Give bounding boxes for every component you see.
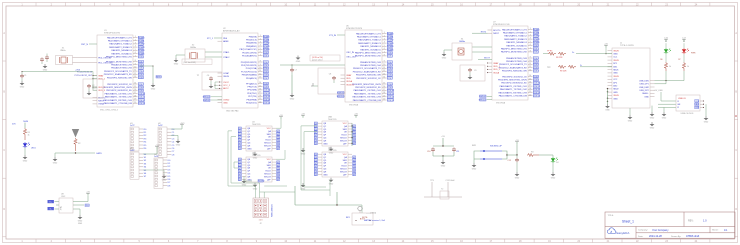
svg-text:PF0(ADC0): PF0(ADC0) bbox=[246, 77, 257, 80]
svg-text:C12: C12 bbox=[508, 160, 511, 162]
svg-text:D: D bbox=[3, 208, 5, 211]
svg-text:D+: D+ bbox=[50, 202, 52, 204]
svg-text:VCC: VCC bbox=[343, 154, 348, 156]
resistor R2 bbox=[74, 138, 77, 151]
svg-text:BOOT0: BOOT0 bbox=[493, 30, 501, 32]
svg-text:PB0/ADC8/TIM3_CH3: PB0/ADC8/TIM3_CH3 bbox=[360, 61, 382, 64]
svg-text:C10: C10 bbox=[427, 151, 430, 153]
op-amp U4 body bbox=[246, 126, 272, 151]
svg-text:1.0: 1.0 bbox=[703, 219, 707, 223]
svg-text:GND: GND bbox=[613, 54, 618, 56]
svg-text:USB_DP1: USB_DP1 bbox=[639, 84, 649, 86]
ground flag above rail bbox=[296, 56, 301, 60]
svg-text:7: 7 bbox=[384, 51, 385, 53]
wire X2 ground bbox=[176, 55, 185, 58]
capacitor C2 100nF near U1 bbox=[83, 79, 103, 98]
ground below C12 bbox=[515, 172, 520, 176]
svg-text:GND: GND bbox=[551, 178, 556, 180]
svg-text:PB13/SPI2_SCK/I2S2_CK: PB13/SPI2_SCK/I2S2_CK bbox=[502, 76, 527, 78]
LED D4 green bbox=[552, 155, 554, 157]
svg-text:PB1/ADC9/TIM3_CH4: PB1/ADC9/TIM3_CH4 bbox=[111, 67, 133, 70]
svg-text:16MHz: 16MHz bbox=[190, 47, 196, 49]
svg-text:PE2(HWB): PE2(HWB) bbox=[247, 99, 257, 101]
svg-text:PD3(TXD1/INT3): PD3(TXD1/INT3) bbox=[241, 65, 257, 67]
svg-text:15: 15 bbox=[383, 83, 385, 85]
svg-text:COL13: COL13 bbox=[138, 103, 145, 105]
svg-text:GND: GND bbox=[151, 89, 156, 91]
svg-text:PB12/SPI2_NSS/I2S2_WS: PB12/SPI2_NSS/I2S2_WS bbox=[502, 71, 528, 73]
svg-text:7: 7 bbox=[135, 55, 136, 57]
svg-text:VDD_2: VDD_2 bbox=[98, 87, 106, 89]
wire U4 VCC to +5V flag bbox=[276, 119, 281, 128]
wire NRST to U1 bbox=[89, 43, 97, 45]
svg-text:3: 3 bbox=[530, 35, 531, 37]
svg-text:ROW4: ROW4 bbox=[533, 42, 540, 44]
ground X4 bbox=[442, 52, 447, 56]
svg-text:SER: SER bbox=[343, 129, 348, 131]
resistor R8 series bbox=[548, 52, 556, 55]
svg-text:PB15/SPI2_MOSI/I2S2_SD: PB15/SPI2_MOSI/I2S2_SD bbox=[106, 90, 132, 92]
svg-text:8: 8 bbox=[530, 51, 531, 53]
svg-text:PC6(OC3A): PC6(OC3A) bbox=[246, 67, 257, 70]
boxed net label above J2 bbox=[258, 180, 263, 183]
junction dots J1 ground pins bbox=[607, 88, 608, 89]
svg-text:PA5/SPI1_SCK/ADC5: PA5/SPI1_SCK/ADC5 bbox=[360, 48, 381, 51]
svg-text:PA9/USART1_TX/TIM1_CH2: PA9/USART1_TX/TIM1_CH2 bbox=[354, 92, 382, 95]
svg-text:COL14: COL14 bbox=[263, 103, 270, 105]
svg-text:VSSA: VSSA bbox=[98, 103, 104, 106]
wires into U8 left bbox=[55, 201, 60, 203]
svg-text:XTAL: XTAL bbox=[60, 206, 63, 210]
capacitor C3 crystal load bbox=[45, 56, 49, 60]
svg-text:COL10: COL10 bbox=[387, 90, 394, 92]
svg-text:PB11/I2C2_SDA/USART3_RX: PB11/I2C2_SDA/USART3_RX bbox=[104, 73, 133, 76]
svg-text:PD1(SDA/INT1): PD1(SDA/INT1) bbox=[242, 55, 257, 58]
svg-text:7: 7 bbox=[530, 47, 531, 49]
ground below U6B bbox=[329, 147, 334, 151]
op-amp U2 body bbox=[222, 33, 258, 108]
op-amp U8 body bbox=[59, 198, 73, 213]
svg-text:NRST: NRST bbox=[98, 101, 104, 103]
svg-text:PB7(OC0A/OC1C): PB7(OC0A/OC1C) bbox=[239, 48, 257, 51]
ground below U6C bbox=[329, 178, 334, 182]
svg-text:COL13: COL13 bbox=[263, 99, 270, 101]
svg-text:COL0: COL0 bbox=[138, 57, 144, 59]
svg-text:PA9/USART1_TX/TIM1_CH2: PA9/USART1_TX/TIM1_CH2 bbox=[105, 96, 133, 99]
svg-text:QH*: QH* bbox=[267, 179, 271, 181]
svg-text:COL12: COL12 bbox=[263, 96, 270, 98]
svg-text:PB15/SPI2_MOSI/I2S2_SD: PB15/SPI2_MOSI/I2S2_SD bbox=[355, 87, 381, 89]
svg-text:PB14/SPI2_MISO/TIM1_CH2N: PB14/SPI2_MISO/TIM1_CH2N bbox=[498, 80, 527, 82]
svg-text:RCLK: RCLK bbox=[265, 171, 271, 173]
svg-text:COL10: COL10 bbox=[138, 93, 145, 95]
svg-text:USBLC6-2SC6: USBLC6-2SC6 bbox=[681, 113, 694, 115]
annotation box above U2 cluster bbox=[182, 59, 212, 64]
svg-text:USBLC6: USBLC6 bbox=[678, 98, 687, 100]
svg-text:4: 4 bbox=[384, 42, 385, 44]
resistor R10 under D1 bbox=[665, 54, 667, 62]
connector J1 body bbox=[612, 48, 650, 108]
svg-text:GND: GND bbox=[174, 64, 179, 66]
svg-text:PA8/USART1_CK/TIM1_CH1: PA8/USART1_CK/TIM1_CH1 bbox=[105, 92, 133, 95]
ground below C6 bbox=[209, 84, 214, 88]
capacitor C6 cluster box near U2 bbox=[202, 72, 222, 90]
svg-text:9: 9 bbox=[530, 57, 531, 59]
svg-text:C8: C8 bbox=[329, 74, 331, 76]
svg-text:14: 14 bbox=[134, 83, 136, 85]
svg-text:ROW5: ROW5 bbox=[138, 53, 145, 55]
svg-text:D2: D2 bbox=[665, 41, 667, 43]
svg-text:PB13/SPI2_SCK/I2S2_CK: PB13/SPI2_SCK/I2S2_CK bbox=[107, 84, 132, 86]
svg-text:PA3/USART2_RX/ADC3: PA3/USART2_RX/ADC3 bbox=[109, 46, 133, 49]
svg-text:VCC_1: VCC_1 bbox=[223, 85, 231, 87]
wire NRST net stub bbox=[140, 66, 153, 83]
svg-text:COL11: COL11 bbox=[387, 93, 394, 95]
svg-text:SER: SER bbox=[267, 134, 272, 136]
svg-text:SWCLK: SWCLK bbox=[203, 97, 211, 99]
svg-text:9: 9 bbox=[260, 64, 261, 66]
svg-text:VDD_1: VDD_1 bbox=[493, 66, 501, 68]
svg-text:BOOT0: BOOT0 bbox=[98, 97, 106, 99]
svg-text:PA0-WKUP/USART2_CTS: PA0-WKUP/USART2_CTS bbox=[107, 36, 132, 39]
svg-text:CLK: CLK bbox=[85, 205, 90, 207]
svg-text:1 2 3: 1 2 3 bbox=[259, 220, 263, 222]
svg-text:AVCC: AVCC bbox=[223, 87, 229, 90]
svg-text:COL5: COL5 bbox=[263, 71, 269, 73]
svg-text:COL8: COL8 bbox=[533, 76, 539, 78]
svg-text:7: 7 bbox=[260, 54, 261, 56]
svg-text:10: 10 bbox=[529, 60, 531, 62]
svg-text:—— [GND]: —— [GND] bbox=[366, 213, 377, 215]
svg-text:XTAL1: XTAL1 bbox=[223, 51, 230, 54]
svg-text:2: 2 bbox=[135, 39, 136, 41]
svg-text:ROW3: ROW3 bbox=[387, 43, 394, 45]
svg-text:Y2: Y2 bbox=[441, 189, 443, 191]
svg-text:ROW1: ROW1 bbox=[533, 33, 540, 35]
svg-text:PA2/USART2_TX/ADC2: PA2/USART2_TX/ADC2 bbox=[109, 43, 132, 46]
svg-text:PA3/USART2_RX/ADC3: PA3/USART2_RX/ADC3 bbox=[358, 42, 382, 45]
crystal X4 body bbox=[452, 43, 472, 60]
svg-text:ROW2: ROW2 bbox=[138, 44, 145, 46]
svg-text:VDD_2: VDD_2 bbox=[493, 69, 501, 71]
svg-text:TITLE:: TITLE: bbox=[608, 215, 615, 217]
svg-text:R8 22R: R8 22R bbox=[556, 57, 563, 59]
svg-text:ROW4: ROW4 bbox=[138, 50, 145, 52]
net flag USB_DP filled bbox=[48, 200, 54, 203]
svg-text:COL7: COL7 bbox=[533, 71, 539, 73]
svg-text:11: 11 bbox=[259, 70, 261, 72]
svg-text:ROW0: ROW0 bbox=[263, 36, 270, 38]
svg-text:GND GND PAD: GND GND PAD bbox=[226, 110, 239, 113]
wire box rails around U6C group bbox=[301, 126, 330, 196]
ground left of caps wire bbox=[54, 153, 56, 157]
svg-text:VDD: VDD bbox=[346, 78, 351, 80]
svg-text:10: 10 bbox=[383, 64, 385, 66]
svg-text:VSS_1 VSS_2 VSS_3: VSS_1 VSS_2 VSS_3 bbox=[100, 110, 118, 112]
capacitor C8 cluster near U6 bbox=[318, 68, 345, 94]
svg-text:ROW3: ROW3 bbox=[263, 46, 270, 48]
wire 3V3 rail bbox=[22, 71, 93, 73]
svg-text:13: 13 bbox=[134, 76, 136, 78]
svg-text:PD5(XCK1): PD5(XCK1) bbox=[246, 103, 257, 105]
svg-text:TP2: TP2 bbox=[547, 67, 550, 69]
svg-text:SRCLR: SRCLR bbox=[340, 171, 347, 173]
svg-text:VBUS: VBUS bbox=[613, 60, 619, 62]
svg-text:8MHz: 8MHz bbox=[60, 50, 65, 52]
svg-text:PA1/USART2_RTS/ADC1: PA1/USART2_RTS/ADC1 bbox=[108, 40, 133, 43]
op-amp U5 body bbox=[246, 157, 272, 182]
switch SW2 button circle bbox=[358, 206, 362, 210]
svg-text:NOTE:: NOTE: bbox=[362, 217, 368, 219]
svg-text:PA3/USART2_RX/ADC3: PA3/USART2_RX/ADC3 bbox=[504, 38, 528, 41]
svg-text:MATRIX revision 1, 8x6: MATRIX revision 1, 8x6 bbox=[364, 219, 386, 222]
wire harness to J2 bbox=[244, 176, 252, 181]
svg-text:R7: R7 bbox=[678, 59, 680, 61]
svg-text:VCC: VCC bbox=[267, 159, 272, 161]
svg-text:GND: GND bbox=[442, 58, 447, 60]
op-amp U7 body bbox=[492, 26, 528, 100]
switch SW2 body bbox=[352, 213, 373, 225]
svg-text:GND: GND bbox=[329, 183, 334, 185]
svg-text:QG: QG bbox=[323, 138, 327, 140]
U2 left pin row2 stub bbox=[218, 40, 223, 42]
svg-text:GND: GND bbox=[162, 180, 167, 182]
svg-text:8: 8 bbox=[260, 61, 261, 63]
resistor R11 under D2 bbox=[683, 54, 685, 62]
wire rail into U5 left bbox=[234, 162, 238, 168]
svg-text:PA11/USART1_CTS/USB_DM: PA11/USART1_CTS/USB_DM bbox=[353, 99, 381, 102]
svg-text:PB11/I2C2_SDA/USART3_RX: PB11/I2C2_SDA/USART3_RX bbox=[353, 70, 382, 73]
svg-text:QG: QG bbox=[247, 174, 251, 176]
svg-text:6: 6 bbox=[260, 51, 261, 53]
svg-text:Date:: Date: bbox=[638, 235, 644, 238]
svg-text:EasyEDA: EasyEDA bbox=[617, 231, 630, 235]
svg-text:PB10/I2C2_SCL/USART3_TX: PB10/I2C2_SCL/USART3_TX bbox=[499, 63, 527, 66]
svg-text:PA7/SPI1_MOSI/TIM3_CH2: PA7/SPI1_MOSI/TIM3_CH2 bbox=[355, 55, 382, 58]
svg-text:PD0(SCL/INT0): PD0(SCL/INT0) bbox=[242, 52, 257, 54]
svg-text:5: 5 bbox=[260, 48, 261, 50]
svg-text:PB2(MOSI): PB2(MOSI) bbox=[246, 43, 257, 45]
svg-text:GND: GND bbox=[605, 110, 610, 112]
net label on U8 output bbox=[85, 204, 89, 207]
svg-text:PF1(ADC1): PF1(ADC1) bbox=[246, 82, 257, 85]
wire into U3 bbox=[661, 92, 676, 101]
wires U8 right bbox=[73, 196, 88, 202]
ground below D3 bbox=[24, 148, 26, 155]
svg-text:1: 1 bbox=[260, 35, 261, 37]
svg-text:LED1: LED1 bbox=[31, 148, 36, 150]
svg-text:PA11/USART1_CTS/USB_DM: PA11/USART1_CTS/USB_DM bbox=[104, 102, 132, 105]
svg-text:COL5: COL5 bbox=[533, 64, 539, 66]
capacitor C11 bbox=[452, 148, 456, 152]
svg-text:PD0_OSC_IN: PD0_OSC_IN bbox=[98, 57, 111, 59]
junction on rail bbox=[22, 71, 23, 72]
svg-text:C11: C11 bbox=[456, 151, 459, 153]
svg-text:(1uF low ESR): (1uF low ESR) bbox=[184, 62, 197, 64]
svg-text:COL9: COL9 bbox=[533, 80, 539, 82]
svg-text:Sheet:: Sheet: bbox=[712, 229, 719, 232]
svg-text:VBAT: VBAT bbox=[493, 62, 499, 65]
svg-text:GND: GND bbox=[515, 178, 520, 180]
capacitor C10 bbox=[433, 145, 454, 147]
svg-text:2: 2 bbox=[260, 38, 261, 40]
svg-text:COL8: COL8 bbox=[263, 83, 269, 85]
svg-text:PA2/USART2_TX/ADC2: PA2/USART2_TX/ADC2 bbox=[504, 35, 527, 38]
U2 left pin XTAL1 wire bbox=[214, 37, 222, 39]
ground near H2 bbox=[176, 139, 181, 143]
svg-text:PA8/USART1_CK/TIM1_CH1: PA8/USART1_CK/TIM1_CH1 bbox=[500, 85, 528, 88]
svg-text:4: 4 bbox=[260, 45, 261, 47]
svg-text:COL8: COL8 bbox=[138, 87, 144, 89]
svg-text:5: 5 bbox=[135, 49, 136, 51]
svg-text:GND: GND bbox=[323, 143, 328, 145]
svg-text:ROW0: ROW0 bbox=[387, 33, 394, 35]
svg-text:VBUS: VBUS bbox=[613, 50, 619, 52]
svg-text:GND: GND bbox=[53, 163, 58, 165]
svg-text:GND: GND bbox=[20, 87, 25, 89]
svg-text:10: 10 bbox=[134, 67, 136, 69]
svg-text:VBUS: VBUS bbox=[613, 76, 619, 78]
wire long loop to SW2 bbox=[294, 186, 296, 205]
svg-text:11: 11 bbox=[529, 63, 531, 65]
svg-text:Drawn By:: Drawn By: bbox=[671, 235, 681, 238]
svg-text:C: C bbox=[3, 149, 5, 152]
svg-text:COL7: COL7 bbox=[387, 78, 393, 80]
svg-text:1: 1 bbox=[135, 36, 136, 38]
svg-text:20: 20 bbox=[529, 94, 531, 96]
svg-text:16: 16 bbox=[259, 89, 261, 91]
svg-text:STM32F072CBT6: STM32F072CBT6 bbox=[346, 28, 363, 30]
wire U8 bottom right to ground bbox=[73, 209, 80, 215]
wire 3V3 rail to U6 bbox=[280, 64, 345, 66]
svg-text:GND: GND bbox=[253, 188, 258, 190]
svg-text:ROW1: ROW1 bbox=[387, 37, 394, 39]
wire cap pair bottom bbox=[432, 152, 434, 156]
ground below U5 bbox=[253, 183, 258, 187]
svg-text:C7: C7 bbox=[295, 70, 297, 72]
svg-text:VSS VSSA: VSS VSSA bbox=[349, 104, 359, 107]
svg-text:COL3: COL3 bbox=[533, 58, 539, 60]
net label SWD boxed pair bbox=[204, 96, 210, 99]
svg-text:SRCLK: SRCLK bbox=[264, 174, 271, 176]
svg-text:13: 13 bbox=[383, 73, 385, 75]
svg-text:COL6: COL6 bbox=[533, 67, 539, 69]
wire X2 to U2 XTAL1 bbox=[205, 51, 222, 53]
svg-text:COL14: COL14 bbox=[533, 96, 540, 98]
svg-text:PA4/SPI1_NSS/ADC4: PA4/SPI1_NSS/ADC4 bbox=[506, 41, 527, 44]
svg-text:UCAP: UCAP bbox=[223, 72, 229, 75]
svg-text:UVCC: UVCC bbox=[223, 82, 229, 84]
svg-text:GND: GND bbox=[613, 98, 618, 100]
ground SW1 bbox=[472, 163, 477, 167]
svg-text:SRCLR: SRCLR bbox=[264, 176, 271, 178]
svg-text:D4: D4 bbox=[556, 162, 558, 164]
net flag USB_DN filled bbox=[48, 207, 54, 210]
svg-text:20: 20 bbox=[134, 102, 136, 104]
svg-text:VBUS: VBUS bbox=[613, 95, 619, 97]
svg-text:GND: GND bbox=[472, 169, 477, 171]
svg-text:PA9/USART1_TX/TIM1_CH2: PA9/USART1_TX/TIM1_CH2 bbox=[500, 88, 528, 91]
svg-text:12: 12 bbox=[134, 73, 136, 75]
svg-text:PB1/ADC9/TIM3_CH4: PB1/ADC9/TIM3_CH4 bbox=[360, 64, 382, 67]
wire USB DN with series resistor bbox=[580, 66, 608, 68]
svg-text:16: 16 bbox=[134, 89, 136, 91]
svg-text:COL9: COL9 bbox=[387, 87, 393, 89]
svg-text:GND: GND bbox=[78, 223, 83, 225]
ground near H3 bbox=[162, 174, 167, 178]
svg-text:GND: GND bbox=[628, 121, 633, 123]
ground below cap pair bbox=[441, 160, 446, 164]
svg-text:19: 19 bbox=[134, 99, 136, 101]
svg-text:COL10: COL10 bbox=[533, 83, 540, 85]
resistor R3 to LED bbox=[527, 153, 539, 156]
svg-text:VDDA: VDDA bbox=[346, 80, 352, 83]
svg-text:GND: GND bbox=[329, 152, 334, 154]
svg-text:PB0/ADC8/TIM3_CH3: PB0/ADC8/TIM3_CH3 bbox=[506, 57, 528, 60]
svg-text:COL2: COL2 bbox=[533, 52, 539, 54]
svg-text:COL7: COL7 bbox=[263, 78, 269, 80]
svg-text:C: C bbox=[735, 149, 737, 152]
svg-text:13: 13 bbox=[529, 69, 531, 71]
svg-text:OSC: OSC bbox=[61, 196, 66, 198]
op-amp U1 body bbox=[97, 35, 133, 107]
svg-text:QH*: QH* bbox=[343, 174, 347, 176]
svg-text:4: 4 bbox=[135, 46, 136, 48]
svg-text:1: 1 bbox=[384, 32, 385, 34]
svg-text:QG: QG bbox=[247, 143, 251, 145]
svg-text:5: 5 bbox=[530, 41, 531, 43]
U6 left top net label wire bbox=[337, 34, 345, 36]
op-amp U6C body bbox=[322, 152, 348, 177]
svg-text:PA4/SPI1_NSS/ADC4: PA4/SPI1_NSS/ADC4 bbox=[360, 45, 381, 48]
svg-text:STM32F401CCU6: STM32F401CCU6 bbox=[493, 24, 510, 26]
svg-text:PF6(TDO): PF6(TDO) bbox=[247, 93, 257, 95]
svg-text:PC14-OSC32_IN: PC14-OSC32_IN bbox=[77, 72, 93, 74]
svg-text:VDDA: VDDA bbox=[493, 71, 499, 74]
svg-text:ROW4: ROW4 bbox=[263, 49, 270, 51]
svg-text:REV:: REV: bbox=[688, 220, 694, 223]
svg-text:4: 4 bbox=[530, 38, 531, 40]
svg-text:COL13: COL13 bbox=[533, 92, 540, 94]
svg-text:VDD_3: VDD_3 bbox=[98, 90, 106, 92]
capacitor C12 bbox=[516, 155, 518, 158]
svg-text:VCC: VCC bbox=[267, 128, 272, 130]
svg-text:COL11: COL11 bbox=[263, 93, 270, 95]
svg-text:11: 11 bbox=[383, 67, 385, 69]
svg-text:1k: 1k bbox=[669, 66, 671, 68]
svg-text:KEY: KEY bbox=[346, 217, 351, 219]
svg-text:18: 18 bbox=[259, 95, 261, 97]
svg-text:NRST: NRST bbox=[156, 77, 162, 79]
svg-text:GND: GND bbox=[296, 61, 301, 63]
LED D1 green bbox=[665, 43, 667, 48]
svg-text:VBUS: VBUS bbox=[223, 76, 229, 78]
op-amp U3 body ESD protection bbox=[676, 95, 700, 111]
svg-text:RCLK: RCLK bbox=[341, 135, 347, 137]
ground U3 right bbox=[704, 116, 709, 120]
svg-text:GND: GND bbox=[253, 157, 258, 159]
ground below C1 bbox=[20, 81, 25, 85]
svg-text:COL12: COL12 bbox=[387, 97, 394, 99]
svg-text:ROW2: ROW2 bbox=[387, 40, 394, 42]
LED D2 red bbox=[683, 43, 685, 48]
U7 right pin rows bbox=[498, 28, 541, 97]
svg-text:1: 1 bbox=[530, 28, 531, 30]
svg-text:COL3: COL3 bbox=[138, 68, 144, 70]
svg-text:20: 20 bbox=[383, 99, 385, 101]
ground NRST cap bbox=[151, 83, 156, 87]
svg-text:18: 18 bbox=[529, 88, 531, 90]
